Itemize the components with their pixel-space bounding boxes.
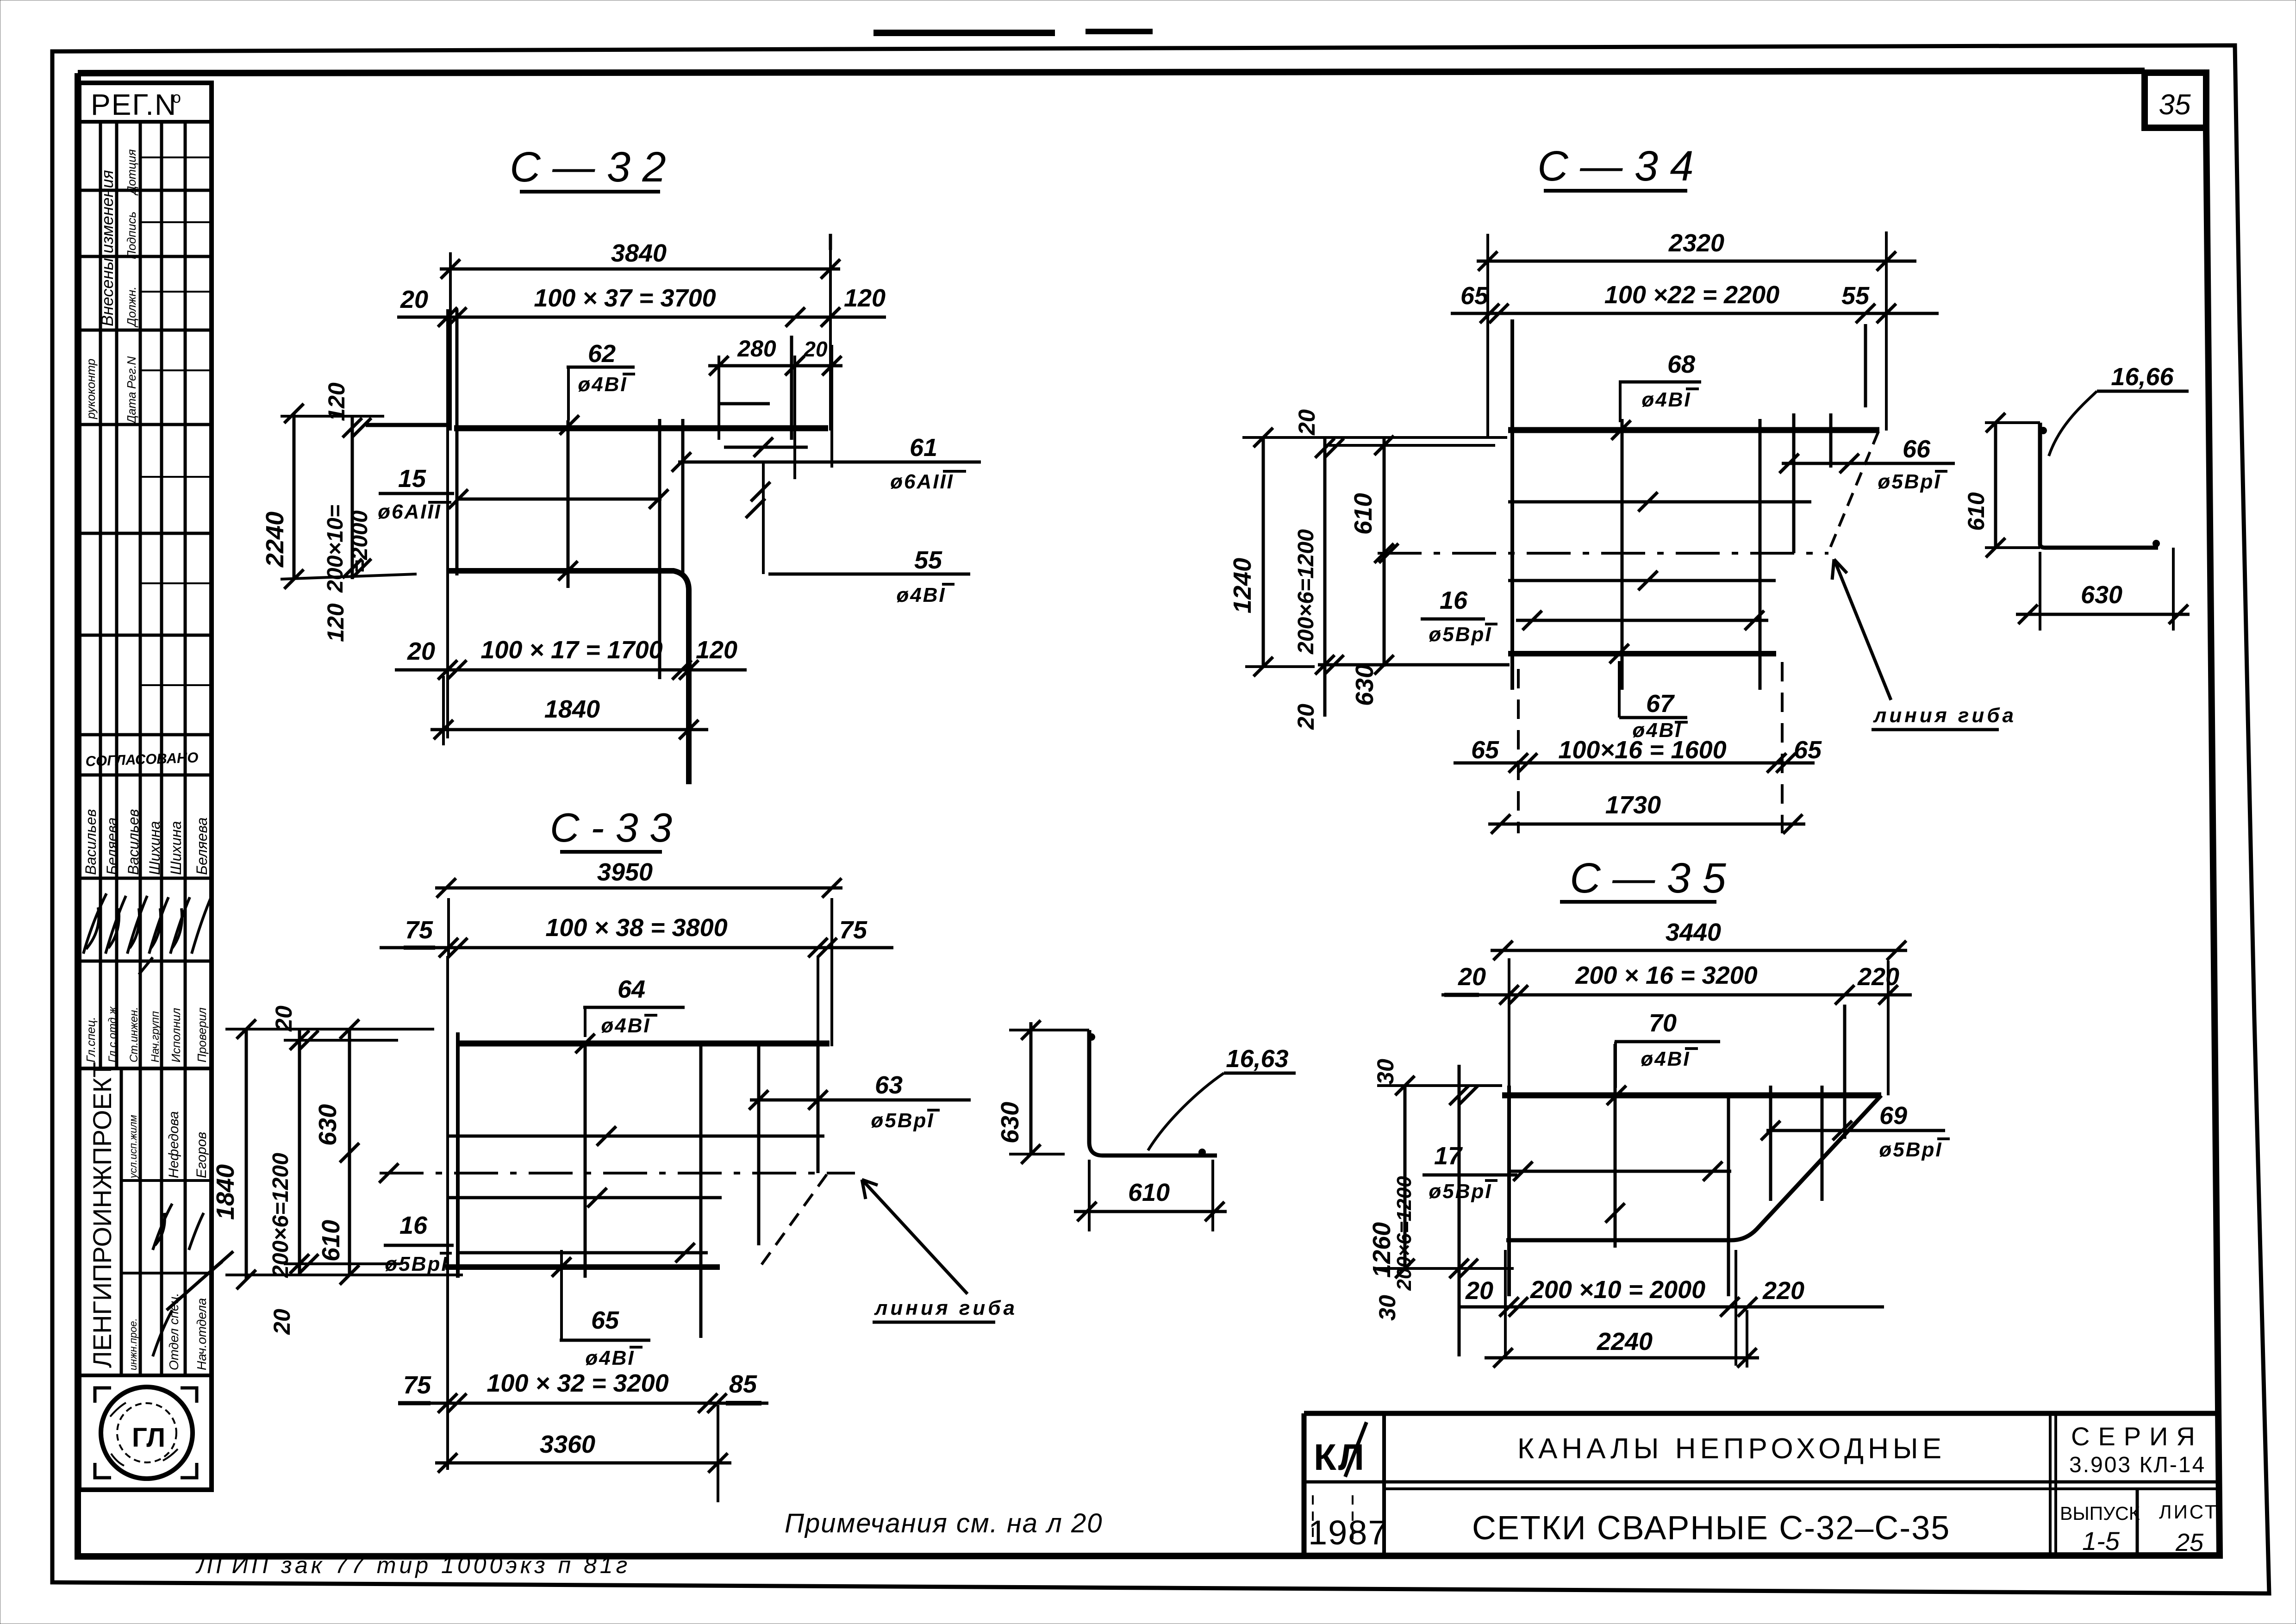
svg-text:200×10=: 200×10= (323, 505, 348, 593)
C-33 detail top extension (1009, 1029, 1089, 1031)
C-34 detail leader curve (2049, 391, 2097, 456)
C-35 bottom extension vert a (1504, 1250, 1507, 1356)
C-33 bend diagonal dashed (760, 1174, 827, 1267)
C-34 left edge cross wire (1510, 319, 1514, 690)
svg-text:66: 66 (1903, 435, 1931, 463)
C-34 detail dim 610 (1994, 423, 1997, 548)
C-32 mesh top wire (454, 425, 828, 431)
svg-text:С — 3 4: С — 3 4 (1537, 143, 1693, 190)
svg-text:Рег.N: Рег.N (125, 356, 138, 389)
C-34 label 68 leader (1619, 382, 1622, 422)
svg-text:63: 63 (875, 1071, 903, 1099)
svg-text:3360: 3360 (540, 1430, 595, 1458)
svg-text:30: 30 (1374, 1295, 1400, 1321)
svg-text:Дотция: Дотция (125, 149, 138, 196)
svg-text:16,66: 16,66 (2111, 363, 2174, 391)
svg-text:Гл.с.отд.ж: Гл.с.отд.ж (106, 1006, 119, 1062)
C-32 extension line right (829, 241, 832, 431)
C-32 label 62 leader (567, 367, 570, 420)
svg-text:3840: 3840 (611, 239, 667, 267)
C-33 mesh top wire (458, 1041, 830, 1047)
signature stroke crossing out (167, 1251, 233, 1310)
C-33 cross wire D (817, 1043, 820, 1173)
C-32 stub under 280 (720, 402, 770, 406)
C-33 vert dim 1840 (245, 1029, 248, 1280)
C-34 detail extensions down (2040, 548, 2173, 631)
C-32 extension 280 left (717, 356, 720, 440)
svg-text:инжн.прое.: инжн.прое. (127, 1318, 139, 1370)
C-33 detail dim 610 (1074, 1210, 1227, 1213)
svg-text:100 ×22 = 2200: 100 ×22 = 2200 (1604, 281, 1779, 309)
svg-text:75: 75 (405, 916, 433, 944)
svg-text:ø5ВрI: ø5ВрI (1879, 1138, 1942, 1161)
C-35 cross wire B (1727, 1095, 1730, 1296)
C-32 label 62 underline (567, 366, 635, 369)
C-33 extension right (830, 898, 833, 1046)
svg-text:усл.исп.жилм: усл.исп.жилм (127, 1115, 139, 1179)
C-34 vert dim 610 630 (1383, 437, 1386, 667)
C-33 wire 16 (458, 1251, 708, 1255)
svg-text:o: o (172, 89, 181, 106)
svg-text:120: 120 (324, 382, 349, 421)
C-34 mesh top wire (1508, 427, 1879, 433)
C-33 cross wire C (757, 1043, 761, 1245)
reg number header box line (79, 120, 212, 124)
svg-text:1-5: 1-5 (2082, 1526, 2120, 1555)
svg-text:200×6=1200: 200×6=1200 (1393, 1176, 1416, 1291)
year box dashes (1313, 1495, 1353, 1539)
svg-text:ГЛ: ГЛ (132, 1423, 165, 1453)
svg-text:Шихина: Шихина (168, 821, 184, 875)
stamp box divider (79, 1374, 212, 1377)
C-33 detail bottom extension (1009, 1153, 1065, 1156)
svg-text:68: 68 (1667, 350, 1695, 378)
svg-text:120: 120 (844, 284, 886, 312)
svg-text:200 ×10 = 2000: 200 ×10 = 2000 (1530, 1276, 1705, 1304)
svg-text:70: 70 (1649, 1009, 1677, 1037)
svg-text:ø4ВI: ø4ВI (601, 1014, 650, 1037)
svg-text:1240: 1240 (1229, 558, 1256, 613)
sidebar sub cell lines (140, 157, 212, 685)
svg-text:16: 16 (1440, 587, 1468, 614)
svg-text:Шихина: Шихина (146, 821, 163, 875)
C-32 title underline (520, 190, 660, 194)
C-33 mesh bottom wire (445, 1264, 720, 1270)
svg-text:65: 65 (1471, 736, 1499, 764)
C-34 extension left (1486, 234, 1489, 437)
C-33 bend detail profile (1089, 1030, 1217, 1156)
C-34 center cross wire (1621, 419, 1624, 690)
svg-text:100×16 = 1600: 100×16 = 1600 (1558, 736, 1726, 764)
C-32 cross wire 62 (567, 420, 570, 588)
C-33 dangling extension (717, 1405, 719, 1502)
svg-text:ø4ВI: ø4ВI (585, 1347, 635, 1369)
svg-text:55: 55 (1841, 282, 1870, 310)
C-33 dim line 75+3800+75 (380, 946, 893, 949)
signature scribbles (83, 893, 106, 954)
svg-text:С - 3 3: С - 3 3 (550, 805, 672, 850)
C-32 extension 280 right (793, 356, 796, 479)
svg-text:3950: 3950 (597, 858, 653, 886)
C-35 dim line 2240 (1485, 1356, 1759, 1360)
C-32 bottom dim line 20+1700+120 (395, 668, 747, 672)
svg-text:35: 35 (2159, 89, 2191, 121)
C-34 vert dim 1240 (1262, 437, 1265, 667)
svg-text:Нач.отдела: Нач.отдела (194, 1298, 209, 1370)
svg-text:ø4ВI: ø4ВI (896, 584, 946, 606)
svg-text:64: 64 (618, 975, 645, 1003)
svg-text:20: 20 (407, 637, 435, 665)
C-32 stub above 61 (724, 446, 808, 449)
svg-text:62: 62 (588, 340, 616, 368)
svg-text:ø6АIII: ø6АIII (378, 500, 442, 523)
C-35 bottom dim line 20+2000+220 (1458, 1305, 1884, 1309)
C-34 liniya giba leader arrow (1832, 559, 1891, 700)
svg-text:610: 610 (1128, 1179, 1170, 1206)
svg-text:линия гиба: линия гиба (1873, 704, 2016, 727)
C-33 cross wire B (699, 1043, 703, 1338)
svg-text:630: 630 (1351, 664, 1379, 706)
C-32 dim line 1840 (430, 728, 708, 731)
svg-text:1987: 1987 (1308, 1513, 1388, 1552)
C-33 left dims bottom extension 2 (284, 1262, 400, 1265)
C-34 detail label line (2097, 390, 2189, 393)
C-34 left dims top extension (1242, 436, 1507, 439)
C-33 centerline bend axis (380, 1172, 855, 1174)
C-32 mesh bottom wire with elbow (446, 571, 689, 784)
C-35 left dims bottom extension (1377, 1267, 1514, 1270)
svg-text:СЕРИЯ: СЕРИЯ (2071, 1422, 2203, 1451)
C-33 bottom dim line 75+3200+85 (401, 1402, 768, 1405)
sidebar outer box (79, 83, 212, 1490)
svg-text:ø4ВI: ø4ВI (1641, 388, 1691, 411)
svg-text:Проверил: Проверил (195, 1007, 209, 1062)
svg-text:ø4ВI: ø4ВI (578, 373, 627, 396)
svg-text:610: 610 (1349, 493, 1377, 535)
C-34 right cross wire (1759, 419, 1762, 690)
C-34 extension right tall (1885, 231, 1888, 431)
C-32 left extension bottom stub (442, 676, 445, 745)
C-34 label 16 underline (1421, 618, 1485, 621)
svg-text:Дата: Дата (125, 392, 138, 425)
svg-text:Беляева: Беляева (193, 818, 210, 875)
C-32 wire 61 line (678, 461, 981, 464)
C-35 dim line 3440 (1491, 949, 1907, 952)
svg-text:С — 3 2: С — 3 2 (510, 144, 666, 191)
C-34 mesh bottom wire (1508, 651, 1776, 656)
C-33 extension right inner (817, 956, 819, 1043)
svg-text:610: 610 (317, 1220, 345, 1262)
svg-text:65: 65 (591, 1306, 619, 1334)
C-32 vert dim line 200x10 (351, 416, 354, 579)
svg-text:85: 85 (729, 1370, 757, 1398)
C-35 cross wire A (1614, 1044, 1617, 1248)
svg-text:65: 65 (1794, 736, 1822, 764)
C-35 bottom extension vert b (1734, 1250, 1737, 1366)
svg-text:2240: 2240 (261, 512, 289, 568)
svg-text:Должн.: Должн. (125, 287, 138, 328)
C-35 cross wire short a (1769, 1086, 1772, 1201)
C-33 detail dim 630 (1029, 1022, 1033, 1154)
C-35 label 70 leader (1614, 1042, 1617, 1088)
C-32 tick mark above right extension (829, 234, 832, 250)
C-34 left dims top extension 2 (1329, 444, 1495, 447)
C-35 title underline (1560, 900, 1716, 904)
svg-text:ЛГИП зак 77 тир 1000экз п 8: ЛГИП зак 77 тир 1000экз п 81г (195, 1552, 630, 1578)
C-32 left extension full (446, 309, 449, 738)
top registration mark 1 (873, 30, 1055, 36)
svg-text:Егоров: Егоров (194, 1132, 209, 1178)
C-32 dim line 280+20 (708, 364, 842, 368)
svg-text:75: 75 (839, 916, 867, 944)
C-33 wire 2 (446, 1135, 824, 1138)
svg-text:Васильев: Васильев (82, 809, 99, 875)
svg-text:3.903 КЛ-14: 3.903 КЛ-14 (2069, 1453, 2206, 1477)
C-32 dim line 3840 (440, 268, 840, 271)
C-34 extension 55 down (1864, 324, 1867, 407)
C-35 label 70 underline (1615, 1040, 1720, 1043)
svg-text:ВЫПУСК: ВЫПУСК (2060, 1503, 2140, 1524)
C-33 label 16 underline (384, 1244, 454, 1247)
C-35 extension 220 down (1746, 1310, 1748, 1368)
C-33 extension left (447, 898, 450, 958)
svg-text:15: 15 (398, 465, 426, 493)
C-35 wire 17 (1509, 1170, 1731, 1173)
C-34 liniya giba underline (1872, 728, 1999, 731)
svg-text:3440: 3440 (1666, 918, 1721, 946)
svg-text:280: 280 (737, 336, 776, 362)
C-35 label 17 underline (1423, 1174, 1517, 1177)
svg-text:ЛЕНГИПРОИНЖПРОЕКТ: ЛЕНГИПРОИНЖПРОЕКТ (87, 1062, 117, 1368)
org band divider (120, 1068, 123, 1375)
C-34 detail dim 630 (2016, 613, 2190, 616)
C-32 label 15 underline (379, 492, 454, 495)
C-32 wire 55 line (768, 573, 970, 576)
C-34 bend detail profile (2040, 423, 2158, 548)
C-33 left extension full (446, 956, 449, 1470)
svg-text:ø6АIII: ø6АIII (890, 470, 954, 493)
svg-text:100 × 37 = 3700: 100 × 37 = 3700 (534, 284, 716, 312)
C-33 leader 65 (560, 1250, 563, 1339)
svg-text:СЕТКИ СВАРНЫЕ С-32–С-35: СЕТКИ СВАРНЫЕ С-32–С-35 (1472, 1510, 1950, 1547)
svg-text:ø5ВрI: ø5ВрI (1429, 623, 1492, 646)
stamp corner brackets (95, 1388, 197, 1478)
svg-text:линия гиба: линия гиба (874, 1297, 1017, 1319)
C-35 dim line 20+3200+220 (1441, 993, 1912, 997)
C-33 wire 3 (446, 1196, 722, 1199)
svg-text:КАНАЛЫ НЕПРОХОДНЫЕ: КАНАЛЫ НЕПРОХОДНЫЕ (1517, 1433, 1946, 1465)
C-34 bend fold dashes (1828, 431, 1878, 552)
svg-text:1730: 1730 (1605, 791, 1661, 819)
C-34 bottom dim line 65+1600+65 (1454, 762, 1815, 765)
svg-text:120: 120 (696, 636, 737, 664)
C-33 cross wire A (584, 1043, 587, 1278)
title block col divider 1 (1382, 1413, 1386, 1555)
svg-text:61: 61 (910, 434, 937, 462)
C-34 short cross wire a (1792, 413, 1796, 553)
svg-text:Нефедова: Нефедова (166, 1111, 181, 1178)
C-35 extension right (1887, 961, 1890, 1095)
C-33 label 64 underline (583, 1006, 685, 1009)
svg-text:Васильев: Васильев (125, 809, 142, 875)
svg-text:20: 20 (1293, 704, 1319, 730)
svg-text:1260: 1260 (1368, 1222, 1396, 1278)
svg-text:100 × 17 = 1700: 100 × 17 = 1700 (480, 636, 662, 664)
C-33 left dims top extension (225, 1028, 434, 1031)
C-33 detail label line (1224, 1072, 1296, 1075)
svg-text:67: 67 (1646, 690, 1675, 718)
C-35 mesh top wire (1502, 1093, 1881, 1099)
title block row divider (1304, 1480, 2220, 1484)
C-32 wire 15 (455, 498, 661, 501)
C-35 left dims top extension (1377, 1084, 1502, 1087)
svg-text:ø5ВрI: ø5ВрI (1878, 470, 1941, 493)
svg-text:РЕГ.N: РЕГ.N (91, 88, 177, 121)
C-34 detail bottom extension (1985, 546, 2040, 549)
svg-text:630: 630 (2081, 581, 2122, 609)
svg-text:220: 220 (1762, 1277, 1804, 1305)
svg-text:20: 20 (1465, 1277, 1493, 1305)
C-33 liniya giba underline (873, 1321, 995, 1324)
C-33 vert dim 200x6=1200 (298, 1029, 301, 1275)
svg-text:20: 20 (269, 1309, 295, 1335)
C-35 mesh bottom wire with cut corner (1506, 1095, 1881, 1240)
C-35 extension right inner (1843, 1005, 1847, 1139)
C-34 wire 2 (1508, 500, 1811, 504)
C-33 left dims bottom extension (225, 1274, 463, 1276)
title block row divider 2 (1384, 1487, 2220, 1490)
svg-text:220: 220 (1857, 963, 1899, 991)
org band signatures (153, 1204, 172, 1250)
C-34 left dims bottom extension (1318, 663, 1510, 667)
svg-text:20: 20 (1294, 409, 1320, 436)
svg-text:69: 69 (1879, 1102, 1907, 1130)
C-33 label 64 leader (584, 1007, 586, 1037)
stamp texture (110, 1403, 178, 1466)
C-33 title underline (560, 850, 662, 854)
top registration mark 2 (1086, 29, 1153, 34)
svg-text:Примечания см. на л 20: Примечания см. на л 20 (785, 1508, 1103, 1538)
C-33 vert dim 630 610 (348, 1029, 351, 1275)
svg-text:100 × 38 = 3800: 100 × 38 = 3800 (545, 914, 727, 942)
sidebar grid horizontals (79, 190, 212, 961)
C-34 dim line 65+2200+55 (1451, 312, 1939, 315)
C-32 extension line left (449, 252, 452, 431)
C-34 dim line 1730 (1488, 823, 1805, 826)
svg-text:ø4ВI: ø4ВI (1641, 1048, 1690, 1070)
band divider (79, 1067, 212, 1070)
C-32 dim line 20+3700+120 (397, 316, 886, 319)
svg-text:СОГЛАСОВАНО: СОГЛАСОВАНО (85, 750, 199, 769)
C-33 left edge cross wire (456, 1032, 460, 1278)
title block outline (1304, 1413, 2220, 1555)
svg-text:С — 3 5: С — 3 5 (1570, 855, 1726, 902)
svg-text:Исполнил: Исполнил (169, 1008, 183, 1062)
svg-text:Гл.спец.: Гл.спец. (84, 1017, 98, 1062)
title block col divider serie (2050, 1413, 2056, 1555)
C-34 label 67 leader (1618, 661, 1621, 718)
svg-text:16: 16 (399, 1212, 428, 1239)
svg-text:100 × 32 = 3200: 100 × 32 = 3200 (487, 1369, 668, 1397)
svg-text:1840: 1840 (212, 1164, 239, 1220)
C-33 label 65 underline (560, 1339, 650, 1342)
C-34 left dims bottom extension 2 (1245, 665, 1315, 668)
C-32 extension 20 right (830, 345, 833, 468)
C-32 left dims bottom extension (281, 574, 417, 579)
svg-text:20: 20 (803, 337, 828, 361)
svg-text:120: 120 (323, 603, 349, 642)
sheet number box 35 (2145, 73, 2206, 128)
stamp circle (101, 1387, 193, 1479)
svg-text:Беляева: Беляева (104, 818, 120, 875)
svg-text:Подпись: Подпись (125, 212, 138, 259)
svg-text:1840: 1840 (544, 695, 600, 723)
svg-text:=2000: =2000 (348, 510, 372, 573)
C-34 title underline (1544, 189, 1687, 193)
C-34 dim line 2320 (1477, 260, 1916, 263)
C-34 bottom extension left dashed (1517, 669, 1520, 833)
org band cells (121, 1068, 212, 1375)
svg-text:20: 20 (1458, 963, 1486, 991)
C-33 dim line 3950 (435, 887, 842, 890)
C-34 wire 66 line (1782, 462, 1955, 465)
svg-text:рукоконтр: рукоконтр (84, 359, 98, 419)
C-32 left dims top extension (281, 415, 384, 418)
sidebar grid verticals (100, 122, 185, 1375)
C-32 cross wire mid right (658, 419, 661, 679)
C-35 vert dim 1260 (1404, 1086, 1407, 1268)
C-35 vert dim 200x6=1200 (1458, 1065, 1461, 1356)
C-35 left edge cross wire (1507, 1086, 1511, 1296)
svg-text:75: 75 (403, 1371, 431, 1399)
C-35 wire 69 line (1766, 1129, 1945, 1132)
svg-text:200×6=1200: 200×6=1200 (268, 1153, 293, 1278)
C-32 vert dim line 2240 (293, 413, 296, 579)
C-34 label 68 underline (1619, 381, 1701, 384)
svg-text:630: 630 (314, 1104, 342, 1146)
svg-text:Внесены изменения: Внесены изменения (98, 170, 117, 326)
C-34 short cross wire b (1829, 413, 1833, 468)
svg-text:55: 55 (914, 546, 942, 574)
C-33 liniya giba leader arrow (862, 1180, 967, 1294)
C-33 left dims top extension 2 (284, 1039, 398, 1042)
svg-text:Ст.инжен.: Ст.инжен. (128, 1007, 140, 1062)
svg-text:ЛИСТ: ЛИСТ (2159, 1501, 2218, 1523)
C-32 cross wire upper right (790, 336, 793, 440)
svg-text:2320: 2320 (1668, 229, 1724, 257)
svg-text:630: 630 (996, 1102, 1024, 1143)
svg-text:200 × 16 = 3200: 200 × 16 = 3200 (1575, 962, 1757, 989)
svg-text:20: 20 (400, 286, 428, 313)
svg-text:25: 25 (2175, 1529, 2204, 1556)
C-32 leader 61 to 55 (762, 462, 765, 574)
C-32 cross wire narrow right (681, 419, 685, 574)
C-34 label 67 underline (1619, 716, 1687, 719)
C-33 detail extensions down (1089, 1160, 1213, 1231)
C-34 vert dim 200x6=1200 (1323, 437, 1327, 717)
C-34 bottom extension right dashed (1781, 662, 1784, 833)
KL logo slash (1345, 1422, 1366, 1477)
svg-text:2240: 2240 (1597, 1328, 1653, 1355)
C-34 wire 3 (1508, 579, 1776, 582)
C-35 extension left (1508, 958, 1510, 1093)
C-34 detail top extension (1985, 421, 2040, 424)
title block col divider list (2136, 1489, 2139, 1555)
svg-text:30: 30 (1373, 1059, 1398, 1085)
C-35 cross wire short b (1821, 1086, 1824, 1201)
svg-text:Нач.групп: Нач.групп (149, 1011, 162, 1062)
svg-text:16,63: 16,63 (1226, 1045, 1288, 1073)
